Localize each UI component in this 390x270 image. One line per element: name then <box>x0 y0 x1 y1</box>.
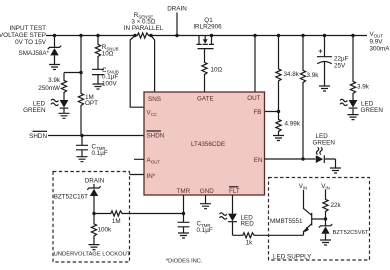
svg-text:INPUT TEST: INPUT TEST <box>9 25 46 32</box>
svg-text:GATE: GATE <box>197 96 214 103</box>
svg-text:BZT52C5V6T: BZT52C5V6T <box>333 230 369 236</box>
svg-text:FLT: FLT <box>229 188 240 195</box>
svg-text:4.99k: 4.99k <box>285 121 301 128</box>
svg-text:VIN: VIN <box>299 183 308 190</box>
svg-text:0.1µF: 0.1µF <box>102 74 118 81</box>
svg-text:DRAIN: DRAIN <box>167 6 187 13</box>
svg-text:GND: GND <box>200 188 214 195</box>
svg-text:VOUT: VOUT <box>370 31 384 38</box>
svg-text:*DIODES INC.: *DIODES INC. <box>166 259 203 265</box>
svg-text:IRLR2906: IRLR2906 <box>193 24 222 31</box>
svg-text:SHDN: SHDN <box>29 133 47 140</box>
svg-text:3.9k: 3.9k <box>307 72 320 79</box>
svg-text:SHDN: SHDN <box>147 133 165 140</box>
svg-text:3.9k: 3.9k <box>48 77 61 84</box>
svg-text:LED SUPPLY: LED SUPPLY <box>273 254 312 261</box>
svg-text:EN: EN <box>254 157 263 164</box>
svg-text:3.9k: 3.9k <box>357 84 370 91</box>
svg-text:OUT: OUT <box>247 95 260 102</box>
svg-text:DRAIN: DRAIN <box>85 178 105 185</box>
svg-text:250mW: 250mW <box>38 85 60 92</box>
svg-text:10Ω: 10Ω <box>102 51 114 58</box>
svg-text:IN PARALLEL: IN PARALLEL <box>124 25 164 32</box>
svg-text:100V: 100V <box>102 81 118 88</box>
svg-text:1M: 1M <box>112 218 121 225</box>
svg-text:LT4356CDE: LT4356CDE <box>191 141 225 148</box>
svg-text:VOLTAGE STEP: VOLTAGE STEP <box>0 32 46 39</box>
svg-text:MMBT5551: MMBT5551 <box>270 218 303 225</box>
svg-text:0.1µF: 0.1µF <box>92 150 108 157</box>
svg-text:10Ω: 10Ω <box>211 67 223 74</box>
svg-text:0V TO 15V: 0V TO 15V <box>15 39 47 46</box>
svg-text:25V: 25V <box>334 62 346 69</box>
svg-text:OPT: OPT <box>85 100 98 107</box>
svg-text:9.9V: 9.9V <box>370 39 384 46</box>
svg-text:100k: 100k <box>98 226 113 233</box>
svg-text:1k: 1k <box>246 239 254 246</box>
svg-text:BZT52C16T: BZT52C16T <box>54 194 88 201</box>
svg-text:RED: RED <box>241 220 255 227</box>
svg-text:SMAJ58A*: SMAJ58A* <box>19 50 50 57</box>
svg-text:22k: 22k <box>331 202 342 209</box>
svg-text:GREEN: GREEN <box>361 107 384 114</box>
svg-text:300mA: 300mA <box>370 46 390 53</box>
svg-text:SNS: SNS <box>148 96 161 103</box>
svg-text:IN*: IN* <box>147 173 156 180</box>
svg-text:GREEN: GREEN <box>23 107 46 114</box>
svg-text:TMR: TMR <box>177 188 191 195</box>
svg-text:0.1µF: 0.1µF <box>197 227 213 234</box>
svg-text:FB: FB <box>253 109 261 116</box>
svg-text:22µF: 22µF <box>334 55 349 62</box>
svg-text:+: + <box>318 49 322 56</box>
svg-text:UNDERVOLTAGE LOCKOUT: UNDERVOLTAGE LOCKOUT <box>54 252 131 258</box>
svg-text:GREEN: GREEN <box>313 140 336 147</box>
svg-text:VIN: VIN <box>321 183 330 190</box>
svg-text:34.8k: 34.8k <box>284 71 300 78</box>
